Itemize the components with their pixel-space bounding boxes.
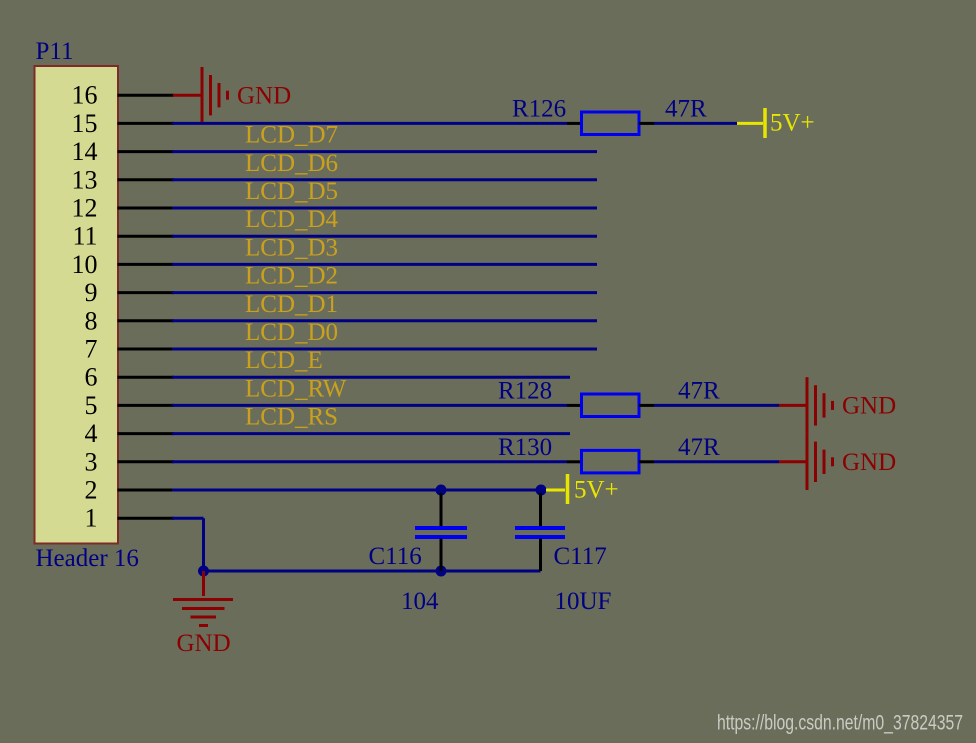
svg-text:LCD_D1: LCD_D1 — [245, 291, 338, 318]
wire pin1 stub (black) — [118, 517, 175, 520]
wire pin10 net LCD_D3 (navy) — [172, 263, 597, 266]
wire pin13 net LCD_D6 (navy) — [172, 178, 597, 181]
ground GND bottom stem (red) — [202, 571, 205, 596]
svg-text:10UF: 10UF — [555, 588, 612, 615]
wire pin11 net LCD_D4 (navy) — [172, 235, 597, 238]
wire pin2 stub (black) — [118, 489, 175, 492]
wire pin1 net horizontal (navy) — [172, 517, 204, 520]
wire pin3 stub (black) — [118, 460, 175, 463]
svg-text:R126: R126 — [512, 95, 566, 122]
svg-text:47R: 47R — [665, 95, 707, 122]
wire pin2 net (navy) — [172, 489, 541, 492]
resistor R130 right lead — [639, 460, 654, 463]
junction pin1/GND — [198, 566, 209, 577]
power 5V+ lower (bar symbol) — [546, 474, 568, 504]
wire pin4 stub (black) — [118, 432, 175, 435]
wire R128 GND red segment — [779, 404, 807, 407]
svg-text:14: 14 — [72, 137, 98, 166]
svg-text:LCD_RW: LCD_RW — [245, 375, 347, 402]
svg-text:GND: GND — [237, 82, 291, 109]
svg-text:10: 10 — [72, 250, 98, 279]
svg-text:LCD_D7: LCD_D7 — [245, 122, 338, 149]
capacitor C116 bottom lead — [440, 539, 443, 572]
wire R130 to GND (navy) — [654, 460, 779, 463]
wire pin16 to GND (red) — [173, 94, 202, 97]
wire pin5 stub (black) — [118, 404, 175, 407]
svg-text:LCD_D2: LCD_D2 — [245, 263, 338, 290]
svg-text:LCD_D6: LCD_D6 — [245, 150, 338, 177]
svg-text:C117: C117 — [554, 543, 607, 570]
wire pin11 stub (black) — [118, 235, 175, 238]
svg-text:5V+: 5V+ — [574, 477, 619, 504]
svg-text:5: 5 — [85, 391, 98, 420]
wire pin14 stub (black) — [118, 150, 175, 153]
svg-text:11: 11 — [72, 222, 97, 251]
svg-text:R128: R128 — [498, 377, 552, 404]
wire pin1 net vertical (navy) — [202, 518, 205, 571]
resistor R130 left lead — [567, 460, 582, 463]
svg-text:P11: P11 — [36, 38, 74, 65]
svg-text:GND: GND — [842, 449, 896, 476]
wire pin12 stub (black) — [118, 207, 175, 210]
svg-text:2: 2 — [85, 476, 98, 505]
wire pin12 net LCD_D5 (navy) — [172, 207, 597, 210]
svg-text:13: 13 — [72, 165, 98, 194]
svg-text:C116: C116 — [369, 543, 422, 570]
resistor R126 body — [582, 112, 640, 135]
wire bottom ground bus (navy) — [204, 570, 541, 573]
resistor R128 right lead — [639, 404, 654, 407]
ground GND right upper (power ground symbol) — [807, 377, 833, 433]
wire pin6 net LCD_E (navy) — [172, 376, 570, 379]
capacitor C117 plates — [515, 528, 565, 537]
capacitor C117 top lead — [539, 493, 542, 527]
wire pin5 net LCD_RW (navy) — [172, 404, 567, 407]
resistor R130 body — [582, 450, 640, 473]
svg-text:LCD_D5: LCD_D5 — [245, 178, 338, 205]
svg-text:3: 3 — [85, 447, 98, 476]
svg-text:47R: 47R — [678, 434, 720, 461]
svg-text:1: 1 — [85, 504, 98, 533]
svg-text:12: 12 — [72, 194, 98, 223]
svg-text:LCD_D4: LCD_D4 — [245, 206, 339, 233]
junction pin2/C117 — [536, 485, 547, 496]
wire R130 GND red segment — [779, 460, 807, 463]
capacitor C116 plates — [415, 528, 467, 537]
svg-text:7: 7 — [85, 335, 98, 364]
resistor R128 body — [582, 394, 640, 417]
capacitor C116 top lead — [440, 493, 443, 527]
wire pin4 net LCD_RS (navy) — [172, 432, 570, 435]
wire pin9 net LCD_D2 (navy) — [172, 291, 597, 294]
wire pin7 net LCD_D0 (navy) — [172, 348, 597, 351]
svg-text:GND: GND — [177, 630, 231, 657]
wire pin7 stub (black) — [118, 348, 175, 351]
ground GND right lower (power ground symbol) — [807, 434, 833, 490]
capacitor C117 bottom lead — [539, 539, 542, 572]
svg-text:6: 6 — [85, 363, 98, 392]
svg-text:104: 104 — [401, 588, 439, 615]
svg-text:LCD_RS: LCD_RS — [245, 404, 338, 431]
junction C116 bottom — [436, 566, 447, 577]
wire pin15 stub (black) — [118, 122, 175, 125]
svg-text:LCD_D0: LCD_D0 — [245, 319, 338, 346]
svg-text:4: 4 — [85, 419, 98, 448]
svg-text:8: 8 — [85, 306, 98, 335]
resistor R128 left lead — [567, 404, 582, 407]
svg-text:LCD_E: LCD_E — [245, 347, 323, 374]
wire pin6 stub (black) — [118, 376, 175, 379]
resistor R126 left lead — [567, 122, 582, 125]
wire pin3 net (navy) — [172, 460, 567, 463]
ground GND bottom (earth symbol) — [173, 600, 233, 626]
wire pin10 stub (black) — [118, 263, 175, 266]
wire pin13 stub (black) — [118, 178, 175, 181]
wire pin15 net (navy) — [172, 122, 567, 125]
svg-text:GND: GND — [842, 393, 896, 420]
svg-text:R130: R130 — [498, 434, 552, 461]
wire pin16 stub (black) — [118, 94, 175, 97]
svg-text:16: 16 — [72, 81, 98, 110]
connector P11 body — [35, 66, 119, 544]
resistor R126 right lead — [639, 122, 654, 125]
wire pin14 net LCD_D7 (navy) — [172, 150, 597, 153]
svg-text:9: 9 — [85, 278, 98, 307]
svg-text:Header 16: Header 16 — [36, 545, 139, 572]
ground GND top (power ground symbol) — [202, 67, 228, 123]
power 5V+ top (bar symbol) — [737, 108, 765, 138]
svg-text:47R: 47R — [678, 377, 720, 404]
svg-text:https://blog.csdn.net/m0_37824: https://blog.csdn.net/m0_37824357 — [717, 712, 963, 735]
wire pin8 net LCD_D1 (navy) — [172, 319, 597, 322]
svg-text:5V+: 5V+ — [770, 110, 815, 137]
junction pin2/C116 — [436, 485, 447, 496]
wire R126 to 5V+ (navy) — [654, 122, 737, 125]
wire pin8 stub (black) — [118, 319, 175, 322]
svg-text:LCD_D3: LCD_D3 — [245, 234, 338, 261]
svg-text:15: 15 — [72, 109, 98, 138]
wire pin9 stub (black) — [118, 291, 175, 294]
wire R128 to GND (navy) — [654, 404, 779, 407]
